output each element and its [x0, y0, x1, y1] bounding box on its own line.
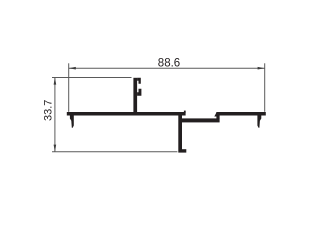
profile screw-channel spine [133, 78, 137, 113]
dimension 88.6 left arrow [69, 67, 76, 70]
profile screw-channel lower tooth [137, 89, 141, 96]
dimension 88.6 line [69, 67, 265, 69]
svg-text:33.7: 33.7 [42, 100, 54, 121]
dimension 33.7 extension line bottom [52, 151, 177, 153]
profile stem foot [182, 149, 186, 152]
profile left tooth [70, 115, 74, 127]
profile right flange [216, 112, 265, 116]
dimension 88.6 extension line right [264, 63, 266, 112]
dimension 33.7 extension line top [52, 77, 132, 79]
dimension 33.7 line [54, 78, 56, 152]
profile main web (upper-left horizontal wall) [67, 112, 186, 116]
profile lower shelf [182, 118, 220, 122]
dimension 88.6 right arrow [258, 67, 265, 70]
svg-text:88.6: 88.6 [158, 57, 180, 69]
profile right tooth [257, 115, 261, 127]
profile center stem [178, 113, 182, 153]
dimension 33.7 top arrow [54, 78, 57, 85]
dimension 33.7 bottom arrow [54, 145, 57, 152]
profile step connector [216, 112, 219, 119]
profile web end nub [184, 111, 186, 113]
profile step beak [214, 112, 216, 116]
profile screw-channel top arm with leg [137, 78, 141, 84]
dimension 88.6 extension line left [68, 63, 70, 112]
